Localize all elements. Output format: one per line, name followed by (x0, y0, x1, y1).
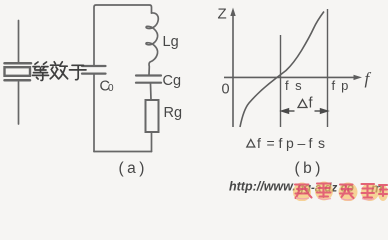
reactance curve Z(f) (240, 12, 324, 128)
dimension arrow Δf right (315, 109, 328, 113)
svg-text:fs: fs (285, 78, 308, 93)
svg-text:0: 0 (222, 82, 230, 98)
svg-text:Z: Z (218, 6, 227, 23)
wire left branch below C0 (93, 75, 95, 152)
svg-text:0: 0 (108, 83, 114, 94)
svg-text:Lg: Lg (163, 34, 179, 50)
label 等效于 (33, 62, 87, 81)
label Δf (triangle drawn) (298, 100, 307, 108)
svg-text:=: = (267, 135, 275, 151)
dimension arrow Δf left (282, 109, 295, 113)
capacitor C0 bottom plate (82, 72, 106, 74)
svg-text:Rg: Rg (164, 105, 183, 121)
capacitor C0 top plate (82, 65, 106, 67)
resistor Rg (146, 100, 159, 132)
crystal Y1 bottom plate (5, 79, 31, 82)
svg-text:f: f (257, 135, 261, 151)
svg-text:f: f (309, 96, 314, 112)
svg-text:p: p (286, 135, 294, 151)
y-axis Z (232, 12, 234, 127)
watermark red characters (decorative) (293, 182, 388, 202)
svg-text:Cg: Cg (163, 73, 182, 89)
wire bottom (94, 151, 152, 153)
svg-text:(a): (a) (119, 160, 148, 177)
svg-text:http://www.: http://www. (229, 180, 296, 194)
svg-text:fp: fp (332, 78, 355, 93)
crystal Y1 top plate (5, 62, 32, 65)
node fs vertical line (280, 35, 282, 127)
capacitor Cg top plate (136, 74, 161, 76)
svg-text:f: f (309, 135, 313, 151)
svg-text:–: – (298, 135, 306, 151)
node fp vertical line (327, 9, 329, 127)
wire Rg to bottom (151, 132, 153, 152)
wire Cg to Rg (150, 84, 153, 100)
svg-text:f: f (365, 69, 372, 88)
svg-text:f: f (279, 135, 283, 151)
capacitor Cg bottom plate (136, 82, 161, 84)
inductor Lg (146, 13, 158, 75)
svg-text:(b): (b) (295, 160, 324, 177)
crystal Y1 top lead (18, 21, 20, 63)
crystal Y1 body (5, 67, 31, 76)
wire top (node between C0 and Lg branches) (94, 5, 152, 66)
equation Δf = fp - fs (247, 135, 325, 151)
x-axis f (224, 76, 357, 78)
crystal Y1 bottom lead (18, 82, 20, 124)
svg-text:s: s (318, 135, 325, 151)
